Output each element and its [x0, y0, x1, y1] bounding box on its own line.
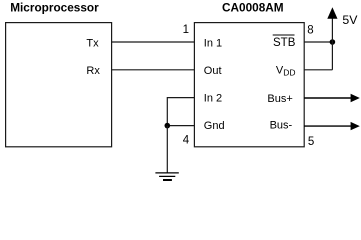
Bus- arrowhead	[351, 122, 360, 130]
pin label Rx	[86, 65, 100, 77]
pin number 4	[183, 135, 190, 147]
wire VDD to 5V node	[304, 69, 332, 71]
svg-text:Out: Out	[204, 65, 222, 77]
Bus- output wire	[304, 125, 352, 127]
Bus+ output wire	[304, 97, 352, 99]
pin label VDD	[276, 64, 296, 77]
svg-text:8: 8	[307, 24, 313, 36]
svg-text:1: 1	[183, 24, 189, 36]
wire Rx to Out	[112, 69, 195, 71]
pin label Bus-	[270, 120, 293, 132]
svg-text:CA0008AM: CA0008AM	[222, 0, 284, 14]
label CA0008AM	[222, 0, 284, 14]
pin label Tx	[86, 37, 99, 49]
svg-text:Microprocessor: Microprocessor	[10, 0, 99, 14]
wire Gnd to ground net	[167, 125, 194, 127]
microprocessor block U-micro	[6, 23, 112, 147]
Bus+ arrowhead	[351, 94, 360, 102]
pin number 5	[308, 136, 314, 148]
svg-text:In 1: In 1	[204, 37, 222, 49]
label Microprocessor	[10, 0, 99, 14]
wire Tx to In 1	[112, 41, 195, 43]
overline of STB	[273, 34, 295, 36]
wire In 2 to ground net	[167, 98, 194, 126]
pin label In 1	[204, 37, 222, 49]
svg-text:STB: STB	[273, 37, 296, 49]
wire STB to 5V node	[304, 41, 332, 43]
pin label In 2	[204, 92, 222, 104]
svg-text:5: 5	[308, 136, 314, 148]
wire down to ground symbol	[166, 126, 168, 173]
junction dot ground node	[165, 123, 171, 129]
svg-text:Bus-: Bus-	[270, 120, 293, 132]
svg-text:Rx: Rx	[86, 65, 100, 77]
pin number 1	[183, 24, 189, 36]
pin label STB (active low)	[273, 37, 296, 49]
svg-text:Bus+: Bus+	[267, 93, 292, 105]
svg-text:Gnd: Gnd	[204, 120, 225, 132]
5V supply arrow	[327, 7, 337, 19]
svg-text:Tx: Tx	[86, 37, 99, 49]
label 5V	[342, 13, 358, 27]
pin label Gnd	[204, 120, 225, 132]
junction dot 5V node	[330, 39, 336, 45]
ground symbol	[155, 173, 178, 180]
pin label Out	[204, 65, 222, 77]
svg-text:4: 4	[183, 135, 190, 147]
svg-text:In 2: In 2	[204, 92, 222, 104]
pin label Bus+	[267, 93, 292, 105]
wire 5V vertical riser	[331, 18, 333, 70]
pin number 8	[307, 24, 313, 36]
IC U1 CA0008AM box	[194, 23, 304, 147]
svg-text:5V: 5V	[342, 13, 358, 27]
